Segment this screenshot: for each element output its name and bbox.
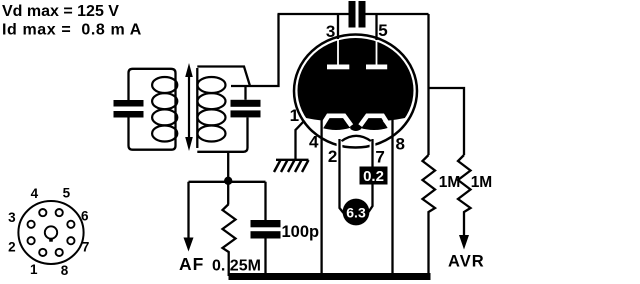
svg-text:2: 2	[328, 147, 337, 166]
svg-text:100p: 100p	[282, 223, 320, 241]
tube V1 white lead to plate 3	[337, 40, 339, 65]
wire secondary bottom to junction	[227, 152, 229, 204]
tube V1 bottom white band cut	[297, 117, 414, 155]
inductor L2 loops (right coil)	[198, 77, 226, 142]
wire heater lead right	[369, 139, 373, 212]
svg-text:4: 4	[31, 186, 39, 201]
tube V1 grid 1 black tent	[322, 118, 351, 130]
svg-text:1M: 1M	[471, 174, 493, 191]
wire top rail left segment	[278, 13, 349, 15]
wire top rail right segment	[366, 13, 429, 15]
svg-text:5: 5	[378, 21, 387, 40]
tube V1 anode plate pin3 (white bar)	[327, 65, 349, 70]
wire pin 2 lead to bus	[320, 119, 322, 276]
svg-text:3: 3	[326, 22, 335, 41]
inductor L2 frame (right coil)	[197, 67, 250, 152]
socket center spigot	[45, 226, 57, 238]
svg-text:2: 2	[8, 240, 16, 255]
svg-text:1: 1	[30, 262, 38, 277]
tube V1 center black column between grids	[349, 116, 363, 131]
svg-text:4: 4	[309, 133, 319, 152]
socket pin numbers	[8, 185, 89, 277]
svg-text:1: 1	[290, 106, 299, 125]
tube V1 white lead to plate 5	[376, 41, 378, 65]
svg-text:7: 7	[82, 240, 90, 255]
node junction dot	[224, 177, 232, 185]
tuning arrow (double-headed, between coils)	[185, 63, 193, 151]
resistor R1 1M (left)	[423, 155, 436, 276]
white halo heater lead right	[370, 142, 376, 151]
ground symbol	[274, 160, 309, 172]
wire 100p branch	[264, 182, 266, 276]
white halo heater lead left	[337, 142, 343, 151]
inductor L1 (left tank coil frame)	[129, 69, 176, 150]
svg-text:8: 8	[61, 263, 69, 278]
resistor R3 0.25M	[223, 204, 236, 276]
wire AF branch	[187, 182, 189, 240]
tube V1 grid 1 white chevron	[320, 116, 351, 129]
wire AVR branch from top rail	[429, 14, 465, 155]
tube V1 internal black disc	[298, 38, 414, 143]
svg-text:0.2: 0.2	[363, 168, 384, 185]
tube V1 cathode dome	[342, 136, 372, 141]
svg-text:0. 25M: 0. 25M	[212, 258, 261, 275]
heater current label 0.2 (black box)	[360, 167, 388, 186]
wire pin 3 lead	[337, 14, 339, 39]
inductor L1 loops	[152, 77, 177, 142]
capacitor C1 (left tank capacitor)	[114, 100, 144, 118]
socket diagram outline	[18, 201, 83, 264]
tube V1 envelope outline	[294, 35, 417, 148]
svg-text:6.3: 6.3	[346, 205, 366, 221]
svg-text:AF: AF	[179, 254, 204, 274]
svg-text:5: 5	[63, 185, 71, 200]
wire pin 1 to ground	[296, 121, 305, 160]
svg-text:AVR: AVR	[448, 253, 485, 271]
svg-text:3: 3	[8, 210, 16, 225]
resistor R2 1M (right)	[458, 155, 471, 236]
capacitor C4 100p plates	[251, 220, 281, 239]
svg-text:Vd max = 125 V: Vd max = 125 V	[2, 3, 119, 20]
svg-text:6: 6	[81, 208, 89, 223]
wire heater lead left	[340, 139, 344, 213]
svg-text:8: 8	[395, 135, 404, 154]
tube V1 grid 2 black tent	[360, 118, 389, 130]
capacitor C3 (top coupling capacitor plates)	[349, 1, 366, 28]
wire pin 7 lead to bus	[391, 119, 393, 276]
tube V1 grid 2 white chevron	[360, 116, 391, 129]
svg-text:7: 7	[375, 148, 384, 167]
tube V1 anode plate pin5 (white bar)	[366, 65, 387, 70]
ground bus bar	[229, 273, 431, 280]
wire pin 5 lead	[375, 14, 377, 40]
socket spigot key	[49, 238, 53, 241]
wire top-left branch (y=86 to top rail)	[231, 14, 279, 86]
capacitor C2 (right tank capacitor)	[231, 100, 261, 118]
svg-text:1M: 1M	[439, 174, 461, 191]
AVR arrow	[459, 235, 469, 250]
heater voltage label 6.3 (black circle)	[343, 199, 370, 226]
svg-text:Id max = 0.8 m A: Id max = 0.8 m A	[2, 22, 142, 39]
AF arrow	[184, 238, 194, 252]
wire junction horizontal	[189, 181, 266, 183]
socket pin holes	[28, 209, 75, 256]
